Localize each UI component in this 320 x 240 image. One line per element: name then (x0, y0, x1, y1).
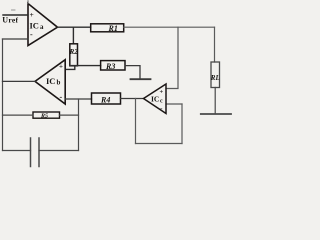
resistor RL (211, 62, 220, 88)
svg-text:b: b (57, 78, 61, 86)
wire R2 bottom to R3 (70, 65, 101, 67)
svg-text:a: a (40, 23, 44, 31)
svg-text:IC: IC (151, 95, 159, 104)
wire left rail to capacitor (3, 150, 31, 152)
op-amp U3 ICc (144, 84, 167, 114)
wire R3 right to ground (125, 66, 140, 79)
svg-text:IC: IC (30, 20, 39, 30)
svg-text:+: + (160, 89, 164, 96)
resistor R3 (101, 61, 125, 70)
wire capacitor to node vertical (39, 150, 79, 152)
svg-text:R1: R1 (108, 24, 118, 33)
wire ICb + input step (65, 66, 75, 70)
wire ICa - input from left rail (3, 38, 29, 40)
svg-text:R3: R3 (105, 62, 115, 71)
svg-text:-: - (30, 30, 33, 39)
wire feedback bottom (136, 143, 183, 145)
svg-text:-: - (60, 93, 63, 102)
svg-text:U: U (2, 16, 8, 25)
svg-text:R5: R5 (40, 113, 48, 119)
ground for R3 (131, 78, 151, 80)
wire R4 to ICc output (121, 98, 144, 100)
wire right corner down to RL (214, 27, 216, 62)
capacitor C1 right plate (38, 138, 40, 167)
wire R1 output to top-right corner (124, 26, 215, 28)
svg-text:R4: R4 (100, 95, 110, 104)
wire ICb output to left rail (3, 80, 36, 82)
wire left rail to R5 (3, 114, 34, 116)
svg-text:RL: RL (210, 74, 220, 82)
svg-text:+: + (59, 62, 63, 70)
wire RL bottom to ground (214, 88, 216, 114)
resistor R2 (70, 44, 78, 66)
wire ICb - input to R4 (65, 98, 91, 100)
wire junction down to R2 (72, 27, 74, 44)
wire feedback junction down (135, 99, 137, 144)
op-amp U2 ICb (35, 60, 65, 104)
ground for RL (201, 113, 231, 115)
wire left rail vertical (2, 39, 4, 151)
svg-text:+: + (30, 10, 34, 19)
wire feedback to ICc - input (166, 103, 182, 105)
resistor R1 (91, 24, 124, 32)
resistor R4 (92, 93, 121, 104)
op-amp U1 ICa (28, 1, 58, 46)
svg-text:ref: ref (8, 16, 18, 25)
node Uref label overline mark (12, 9, 16, 11)
wire R5 to node vertical (60, 114, 79, 116)
svg-text:R2: R2 (69, 48, 79, 56)
capacitor C1 left plate (30, 138, 32, 167)
svg-text:IC: IC (46, 76, 55, 86)
wire ICa output to R1 (58, 26, 91, 28)
wire ICc + input up to top wire (166, 27, 178, 88)
wire Uref to ICa + input (3, 14, 28, 16)
resistor R5 (33, 112, 60, 118)
wire feedback right vertical (181, 104, 183, 144)
wire node vertical to R5 and capacitor (78, 99, 80, 151)
